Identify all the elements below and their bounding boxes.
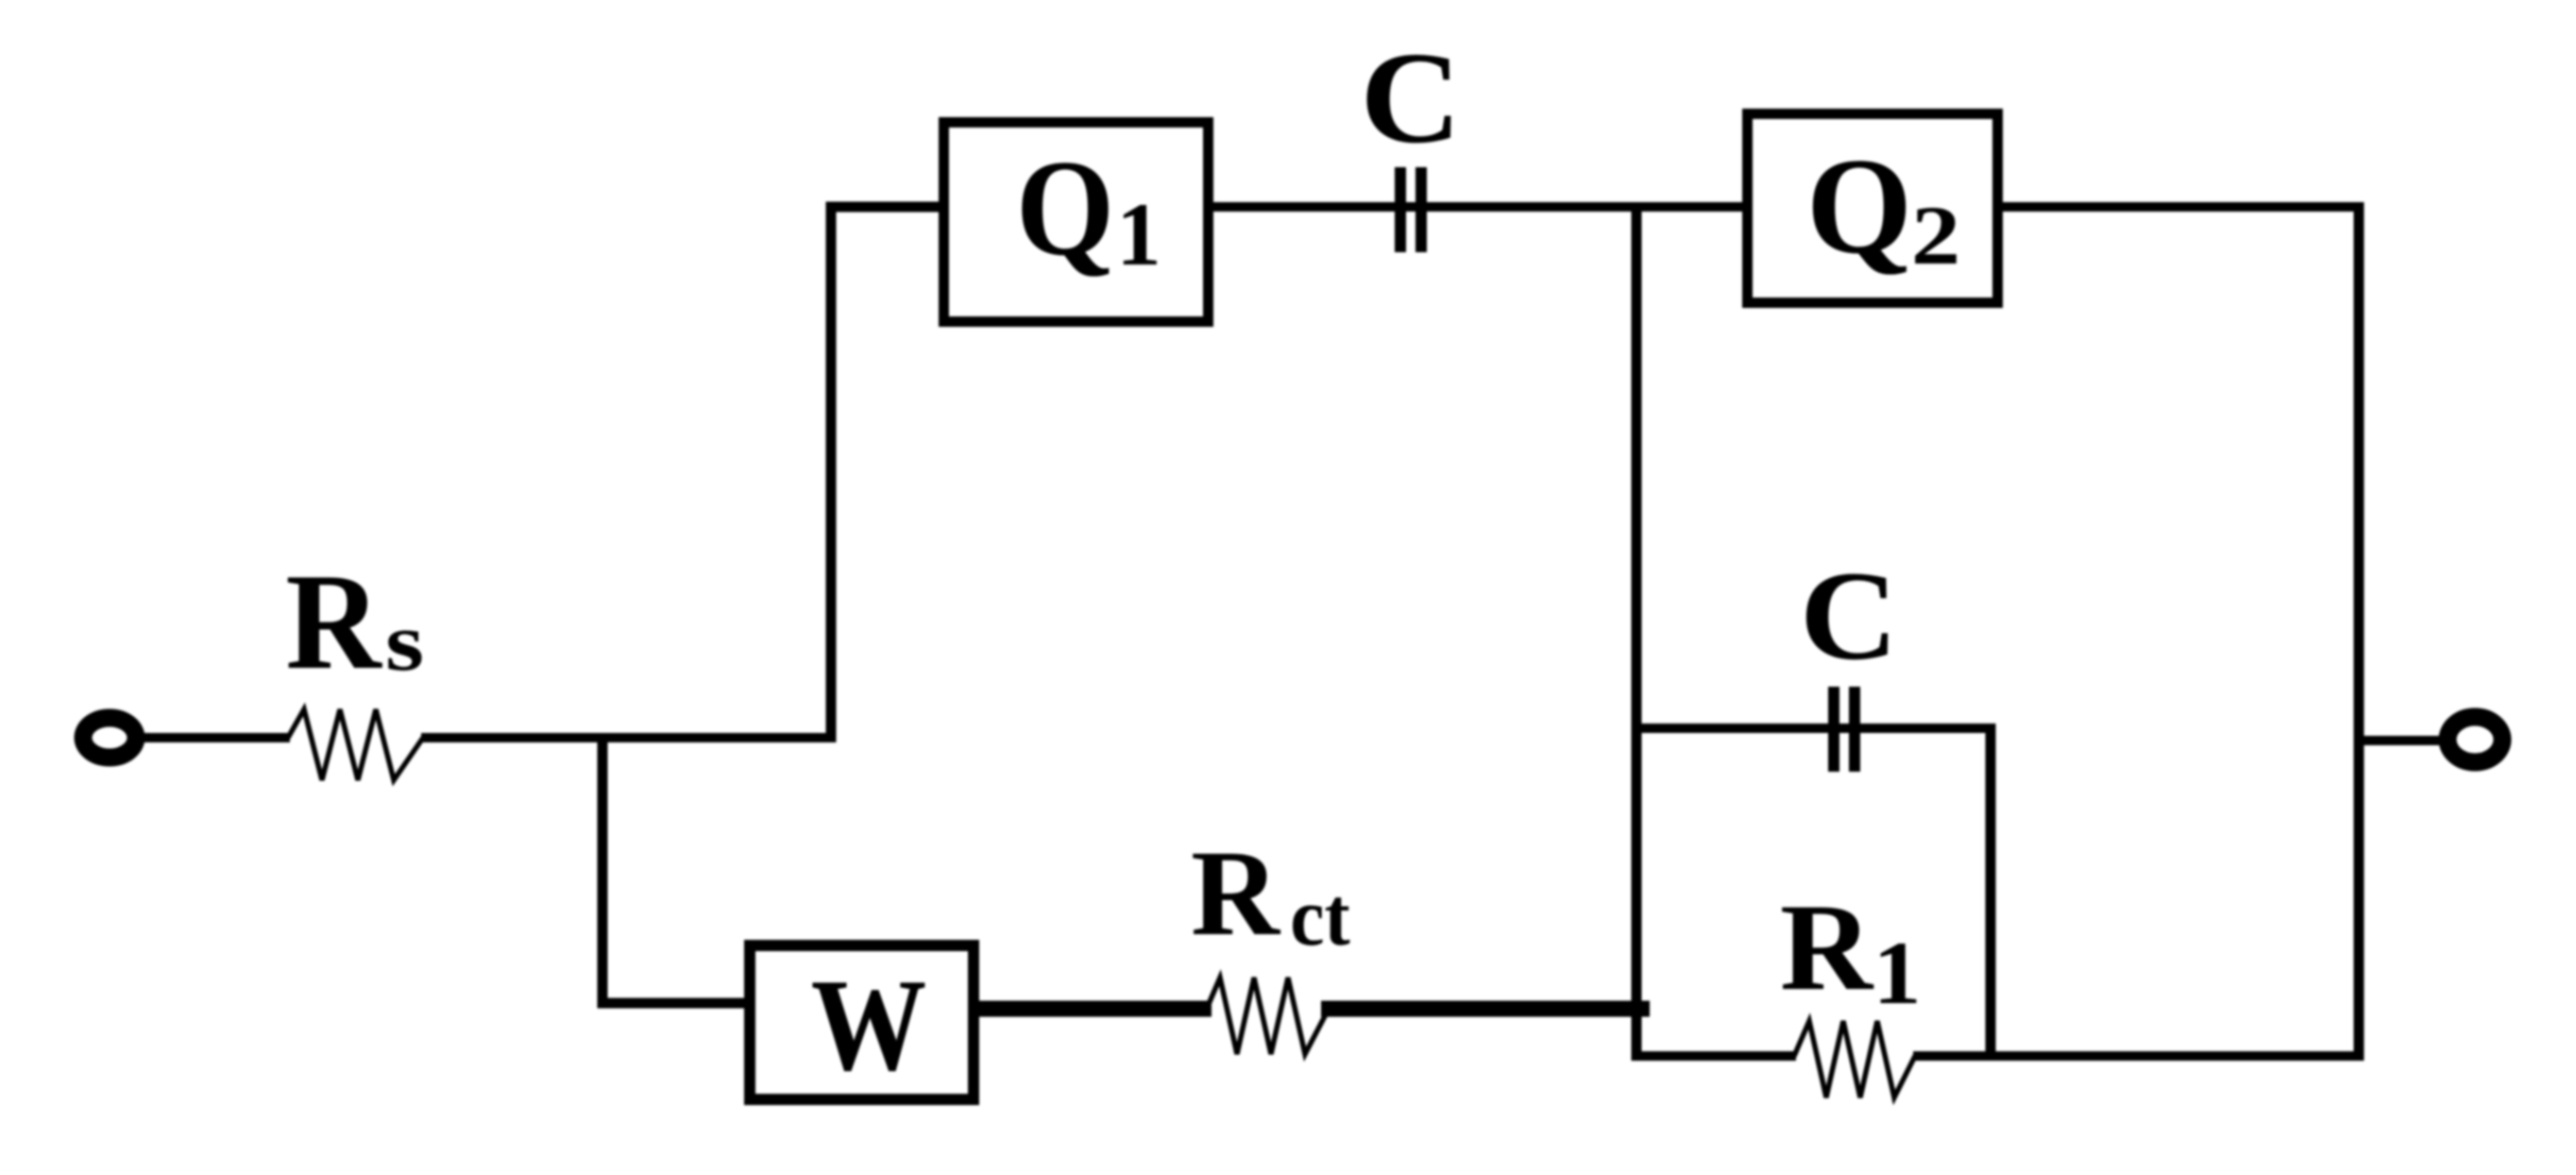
wire: node A up to Q1: [831, 207, 939, 742]
wire: left lead to Rs: [144, 733, 290, 742]
label W: [811, 953, 926, 1098]
svg-text:Q: Q: [1016, 132, 1114, 284]
svg-text:2: 2: [1911, 189, 1961, 282]
svg-text:R: R: [285, 544, 382, 697]
wire: Rct to mid vertical (thick): [1321, 1001, 1650, 1017]
resistor R1: [1794, 1021, 1915, 1098]
svg-text:C: C: [1360, 26, 1461, 171]
svg-text:R: R: [1191, 826, 1281, 962]
left terminal T1: [83, 718, 136, 758]
svg-text:1: 1: [1873, 924, 1921, 1023]
label Rct: [1191, 826, 1350, 963]
svg-text:C: C: [1800, 545, 1898, 687]
wire: mid vertical: [1632, 202, 1642, 1061]
wire: W to Rct (thick): [979, 1001, 1212, 1017]
resistor Rct: [1206, 978, 1327, 1054]
wire: Q2 to right vertical: [2003, 202, 2364, 212]
label Rs: [285, 544, 424, 697]
svg-text:Q: Q: [1806, 130, 1912, 282]
svg-text:1: 1: [1116, 184, 1161, 284]
label C (loop): [1800, 545, 1898, 687]
resistor Rs: [288, 709, 423, 780]
wire: Rs to node A: [421, 733, 836, 742]
capacitor C (loop): [1828, 687, 1860, 772]
wire: Q1 to Q2 through C: [1213, 202, 1742, 212]
wire: far right vertical: [2354, 202, 2364, 1061]
wire: loop right vertical: [1986, 724, 1996, 1061]
wire: node A down to W: [602, 733, 750, 1003]
CPE Q1: [944, 123, 1209, 322]
label Q1: [1016, 132, 1161, 284]
right terminal T2: [2448, 717, 2502, 762]
svg-text:W: W: [811, 953, 926, 1098]
wire: loop bottom branch left: [1632, 1051, 1796, 1061]
wire: loop bottom branch right: [1913, 1051, 2364, 1061]
capacitor C (top): [1395, 167, 1427, 252]
label C (top): [1360, 26, 1461, 171]
svg-text:ct: ct: [1290, 871, 1350, 962]
wire: loop top branch: [1636, 724, 1991, 733]
svg-text:R: R: [1780, 878, 1873, 1016]
svg-text:s: s: [385, 596, 424, 689]
label R1: [1780, 878, 1922, 1023]
wire: right terminal stub: [2359, 736, 2444, 745]
Warburg element W: [750, 945, 974, 1099]
label Q2: [1806, 130, 1960, 282]
CPE Q2: [1748, 114, 1998, 303]
